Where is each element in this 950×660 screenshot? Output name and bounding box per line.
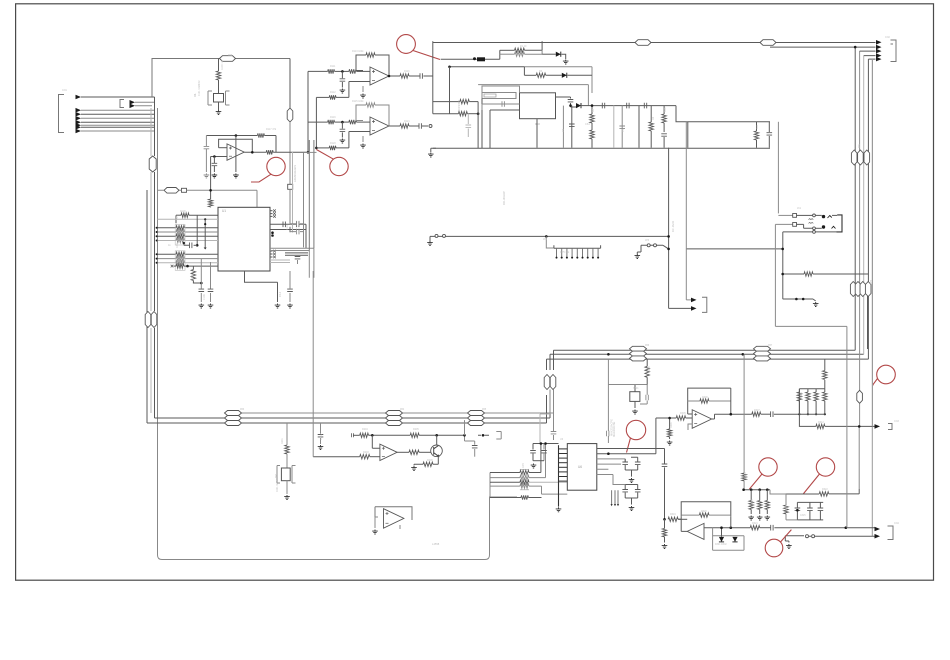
input resistor stack B: [158, 253, 177, 255]
terminal cluster right: [482, 434, 485, 437]
feedback resistor R28b: [410, 433, 419, 437]
svg-text:FB7: FB7: [768, 345, 773, 347]
svg-text:C315: C315: [800, 515, 806, 517]
annotation circle A8: [765, 539, 783, 557]
cap C15: [553, 411, 555, 431]
Q1 emitter down resistor: [433, 456, 438, 464]
svg-text:R116: R116: [404, 70, 410, 73]
connector P1 bracket: [891, 40, 897, 62]
U4 input resistor R27: [360, 455, 370, 459]
crystal X2 block: [286, 423, 288, 445]
op-amp U3B: [370, 117, 389, 135]
ground left end: [427, 241, 433, 246]
U3A ground: [362, 86, 364, 92]
junction dots upper bus: [607, 353, 610, 356]
wire y494 to cluster2: [770, 490, 785, 494]
left vertical bus: [146, 190, 148, 423]
resistor R29: [490, 497, 521, 499]
output bar: [285, 253, 308, 255]
svg-text:MAX202CSE: MAX202CSE: [612, 421, 616, 437]
lower wire y299: [783, 298, 813, 300]
wire x872 from top: [872, 60, 874, 426]
U5 plus ground: [688, 424, 692, 430]
annotation circle A4: [626, 420, 645, 439]
grounds under power: [431, 148, 436, 152]
svg-text:R119: R119: [330, 116, 336, 119]
vertical drop x859: [858, 426, 860, 489]
connector J1 bracket: [59, 95, 65, 133]
svg-text:RP1: RP1: [176, 215, 179, 220]
vertical bead pair on riser: [544, 375, 550, 390]
diode pair: [713, 528, 744, 551]
resistor R33 above bank: [824, 380, 826, 389]
resistor R35 vertical: [742, 473, 746, 481]
cap C10 column: [200, 259, 202, 289]
resistor R32: [752, 412, 761, 416]
svg-text:R106: R106: [180, 210, 186, 213]
svg-text:R115 100k: R115 100k: [352, 100, 364, 103]
resistor R18: [500, 53, 515, 55]
cluster2 vertical resistor R40: [785, 494, 787, 505]
top right connector P1 wires: [770, 46, 876, 48]
svg-text:CN2: CN2: [885, 36, 890, 39]
IC2 box: [567, 444, 597, 491]
upper 3-line bus: [547, 350, 869, 359]
gray cap column x468: [467, 114, 469, 124]
diode D1: [541, 41, 543, 50]
svg-text:TOP249Y: TOP249Y: [457, 100, 461, 112]
svg-text:L4558: L4558: [432, 542, 440, 546]
svg-text:R304: R304: [670, 422, 673, 428]
vertical from bus to row: [464, 420, 466, 435]
vertical column x563: [562, 106, 564, 148]
IC2 left pins: [559, 448, 568, 450]
U7 output wire: [704, 527, 750, 529]
U2 feedback resistor R5: [257, 133, 264, 137]
diode D3: [576, 103, 581, 108]
resistor pack RP3: [546, 236, 554, 248]
bead group G7 right bus: [850, 282, 856, 297]
diode D2: [562, 73, 567, 78]
annotation circle A2: [267, 157, 285, 175]
U3B output terminal: [429, 125, 432, 128]
annotation circle A7: [877, 365, 896, 384]
jack left verticals: [775, 224, 847, 413]
op-amp U6 box: [375, 507, 412, 520]
caps group right of IC2 lower: [622, 490, 628, 492]
op-amp U3A: [370, 67, 389, 85]
svg-text:CN3: CN3: [894, 420, 899, 423]
ferrite bead FB2: [287, 108, 293, 122]
cap C11 column: [210, 262, 212, 289]
svg-text:R113 100k: R113 100k: [352, 50, 364, 53]
svg-text:R302: R302: [648, 366, 651, 372]
U2 feedback wire: [206, 135, 257, 137]
gray row y219: [158, 218, 219, 220]
svg-text:R314: R314: [751, 499, 754, 505]
svg-text:R105: R105: [191, 274, 194, 280]
resistor R7 row1: [308, 70, 328, 72]
bead group G6 right bus: [851, 150, 857, 165]
IC1 right output wires w caps: [270, 223, 296, 225]
cap C14 right of Q1: [465, 435, 475, 445]
caps group right of IC2 upper: [622, 462, 628, 464]
cap C4: [341, 71, 343, 78]
resistor rows left: [433, 101, 460, 103]
svg-text:FB5: FB5: [482, 409, 487, 411]
svg-text:C111: C111: [286, 224, 289, 230]
svg-text:C106: C106: [203, 294, 206, 300]
lower jack wires: [785, 535, 804, 537]
svg-text:R112: R112: [330, 91, 336, 94]
svg-text:R104 1M: R104 1M: [221, 60, 224, 70]
transistor Q1: [431, 445, 443, 457]
svg-text:R318: R318: [785, 504, 788, 510]
resistor R25 vertical: [192, 266, 194, 269]
U2 feedback box: [219, 139, 253, 152]
ferrite bead FB1: [220, 56, 236, 62]
cap C5: [341, 122, 343, 129]
resistor R41 vertical: [664, 519, 666, 528]
resistor R10 row4: [316, 147, 329, 149]
vertical x197 cap link: [196, 215, 198, 245]
svg-text:FB8: FB8: [228, 55, 233, 57]
resistor R23: [176, 214, 181, 216]
wire row y67: [450, 66, 525, 68]
U4 minus wire: [372, 435, 380, 448]
vertical gray feed lines: [288, 184, 293, 189]
svg-text:U6: U6: [578, 465, 582, 469]
svg-text:C12: C12: [278, 291, 282, 297]
IC2 right pin wires: [597, 448, 665, 450]
jack coil marks: [809, 219, 814, 220]
IC1 box: [218, 207, 270, 271]
U5 input resistor R31: [676, 416, 685, 420]
resistor R30 vertical: [669, 418, 671, 429]
caps under bar: [295, 257, 301, 259]
Q1 collector up: [436, 435, 438, 445]
svg-text:R308: R308: [800, 392, 803, 398]
vertical gray x847 lower: [846, 413, 848, 528]
resistor bank RB1: [799, 388, 824, 390]
U6 ground: [375, 516, 378, 518]
inner boundary left and bottom: [158, 108, 518, 560]
IC3 right components: [556, 97, 571, 99]
cap C12: [287, 289, 293, 291]
IC2 top feeds: [607, 385, 609, 432]
resistor R8 row2: [316, 96, 329, 98]
jack switch row1: [778, 214, 792, 216]
ferrite bead FB4 pair on left bus: [145, 312, 151, 328]
cap pair mid: [297, 221, 299, 227]
svg-text:R203: R203: [363, 451, 369, 454]
resistor stack RP4: [490, 472, 520, 474]
vertical column x651 resistor: [650, 106, 652, 122]
svg-text:R306: R306: [702, 396, 708, 399]
U4 feedback resistor R26: [353, 434, 359, 436]
U3B feedback resistor R14: [356, 105, 366, 121]
mid horizontal bus 3 lines: [147, 418, 550, 423]
svg-text:R204: R204: [362, 428, 368, 431]
input resistor stack A: [158, 227, 177, 229]
svg-text:R322: R322: [822, 488, 828, 491]
vertical link B: [315, 97, 317, 147]
IC3 left bracket caps: [482, 93, 516, 99]
vertical column x664 resistor cap: [663, 106, 665, 114]
vertical column x622 cap: [621, 106, 623, 148]
resistor R34: [816, 424, 825, 428]
crystal Y1: [214, 94, 224, 103]
output pins P3: [875, 527, 881, 532]
U3B output resistor R16: [389, 125, 400, 127]
svg-text:C64: C64: [585, 122, 590, 126]
svg-text:X301: X301: [633, 387, 639, 390]
power box inner top wire: [478, 85, 588, 106]
inner boundary top wire: [152, 59, 290, 98]
terminal block right of pack: [647, 244, 650, 247]
svg-text:R201: R201: [281, 438, 284, 444]
annotation circle A1: [397, 35, 416, 54]
op-amp U4: [380, 444, 397, 460]
power step right: [676, 106, 688, 148]
resistor R24 bottom row: [171, 265, 174, 268]
cluster2 cap box: [797, 502, 823, 520]
op-amp U5: [692, 410, 711, 429]
wires J1 to bus: [81, 96, 155, 98]
feed lines from bead riser: [550, 390, 554, 415]
svg-text:R320: R320: [701, 510, 707, 513]
svg-text:RD-30HAP: RD-30HAP: [502, 191, 506, 205]
vertical x664 through cap to U7: [664, 449, 666, 464]
cluster1 resistors: [750, 490, 752, 501]
U7 output resistor R43: [750, 526, 760, 530]
vertical link A: [307, 71, 309, 152]
cap C19: [771, 411, 773, 417]
svg-text:FB4: FB4: [400, 409, 405, 411]
svg-text:R206: R206: [427, 459, 433, 462]
resistor R1: [218, 59, 220, 72]
annotation circle A3: [330, 157, 348, 175]
vertical through bus: [312, 413, 314, 457]
U2 plus cap C3: [213, 157, 215, 164]
U2 plus feed vertical: [210, 157, 212, 191]
connector J2 pins: [130, 100, 136, 105]
svg-text:R205: R205: [413, 428, 419, 431]
power rail top y105.6: [592, 105, 676, 107]
U4 output resistor R28: [396, 451, 409, 453]
U2 output resistor R6: [244, 151, 266, 153]
svg-text:DC JACK: DC JACK: [671, 221, 675, 232]
fuse row: [441, 58, 477, 60]
inner boundary riser to rows: [489, 473, 491, 498]
IC3 regulator: [520, 93, 556, 119]
wire to step: [524, 67, 592, 93]
svg-text:RP5 10k: RP5 10k: [560, 251, 570, 254]
U2 plus wire: [211, 156, 227, 158]
vertical column x639: [638, 106, 640, 148]
output pin P2: [875, 424, 881, 429]
svg-text:JK1: JK1: [797, 207, 802, 210]
rail caps: [602, 103, 604, 109]
U3B ground: [362, 136, 364, 142]
svg-text:RP3: RP3: [522, 463, 525, 468]
U2 gray input cap C2: [205, 136, 207, 147]
U3A feedback resistor R11: [356, 55, 366, 71]
connector P1 pins: [876, 40, 882, 45]
vertical column x613: [613, 106, 615, 148]
svg-text:R117 47k: R117 47k: [266, 128, 277, 131]
cap C22: [771, 525, 773, 531]
top bus wire: [433, 42, 876, 44]
connector P4 bracket: [702, 297, 707, 312]
IC1 bottom mid wire: [245, 271, 278, 302]
caps C17 C18: [533, 443, 559, 445]
ferrite bead FB3 on left bus: [149, 156, 156, 172]
resistor R19: [523, 67, 525, 76]
connector J2 bracket: [120, 100, 124, 108]
resistor R21 row274: [783, 273, 804, 275]
cap C16: [646, 385, 648, 395]
power rail bottom y147.7: [433, 147, 770, 149]
bead FB6 top bus: [760, 40, 776, 46]
vertical x205 with dots: [204, 219, 206, 247]
svg-text:X201 32.768k: X201 32.768k: [276, 476, 279, 492]
cluster2 resistor R39: [785, 493, 819, 495]
cap C9 on step: [768, 122, 770, 132]
RP4 right links: [529, 444, 541, 473]
cluster1 top wire: [744, 489, 770, 491]
U7 input resistor R42: [668, 517, 678, 521]
svg-text:R307: R307: [754, 409, 760, 412]
op-amp U7 pointing left: [687, 523, 704, 539]
svg-text:JP3: JP3: [645, 239, 650, 242]
IC2 bottom pins: [612, 490, 618, 504]
svg-text:CN4: CN4: [894, 522, 899, 525]
bus corner rise to upper bus: [547, 395, 554, 423]
bead group G1 on mid bus: [225, 411, 242, 416]
svg-text:ADM202EARN: ADM202EARN: [293, 165, 297, 182]
svg-text:FB2: FB2: [871, 279, 873, 284]
svg-text:R305: R305: [680, 412, 686, 415]
bead FB5 top bus: [635, 40, 651, 46]
jack switch row2: [775, 223, 792, 225]
annotation circle A5: [759, 458, 777, 476]
vertical gray x744: [743, 354, 745, 473]
jack switch row3: [783, 231, 813, 233]
resistor R22: [210, 190, 212, 199]
vertical feeds x303 x309 x313: [303, 152, 305, 247]
IC1 right pin dots: [271, 231, 274, 234]
svg-text:FB3: FB3: [240, 409, 245, 411]
IC1 lower right outputs: [270, 248, 314, 250]
svg-text:C201: C201: [320, 434, 323, 440]
svg-text:CN1: CN1: [62, 89, 67, 92]
resistor R20 on step: [688, 121, 745, 123]
U3A output resistor R13: [389, 75, 400, 77]
resistor R9b: [349, 120, 357, 124]
long vertical wire x872: [871, 60, 873, 536]
svg-text:RP2: RP2: [176, 243, 179, 248]
op-amp U2: [227, 144, 244, 160]
resistor R9 row3: [308, 121, 328, 123]
single bead G8 right bus: [857, 390, 863, 403]
svg-text:JP2: JP2: [543, 238, 548, 241]
connector P4 wires: [669, 249, 691, 309]
resistor R17: [500, 49, 515, 51]
wires right column lower: [867, 296, 869, 349]
svg-text:R313: R313: [744, 472, 747, 478]
U7 feedback loop: [681, 502, 731, 517]
bead group G4 upper bus: [630, 346, 647, 351]
U2 minus wire: [219, 147, 227, 149]
vertical column x592 resistors: [591, 106, 593, 114]
svg-text:U1: U1: [222, 209, 226, 213]
cap C13: [320, 423, 322, 434]
svg-text:R11: R11: [756, 124, 759, 129]
svg-text:FB6: FB6: [645, 345, 650, 347]
bead group G2 on mid bus: [386, 411, 403, 416]
IC3 left wires: [490, 110, 520, 148]
power section outline: [432, 41, 434, 114]
svg-text:R319: R319: [670, 513, 676, 516]
U5 output: [712, 414, 752, 419]
svg-text:R120: R120: [330, 142, 336, 145]
bead FB7: [164, 188, 179, 194]
svg-text:R10: R10: [664, 107, 667, 112]
svg-text:FB1: FB1: [859, 143, 861, 148]
connector J1 pins: [76, 95, 82, 100]
IC2 left common vertical: [558, 445, 560, 506]
vertical column x571 cap: [571, 106, 573, 148]
U2 cross vertical: [235, 136, 237, 173]
wire down from top-right of inner boundary: [289, 59, 291, 109]
resistor R7b: [349, 69, 357, 73]
U5 input feed from IC2: [656, 418, 676, 454]
svg-text:R312: R312: [818, 421, 824, 424]
bead group G5 upper bus: [754, 346, 771, 351]
open terminals: [435, 234, 438, 237]
wires J2: [135, 101, 155, 103]
X3 resistor link: [608, 384, 647, 386]
jack frame bracket: [837, 215, 843, 232]
svg-text:R1 10: R1 10: [520, 45, 527, 48]
crystal X3: [607, 359, 609, 385]
wire FB2 down: [289, 122, 291, 184]
svg-text:D301 D302: D301 D302: [715, 544, 727, 546]
U5 feedback loop: [688, 388, 731, 414]
svg-text:R121: R121: [404, 120, 410, 123]
bead group G3 on mid bus: [468, 411, 485, 416]
power verticals to lower area: [668, 148, 670, 249]
svg-text:R111: R111: [330, 65, 336, 68]
annotation circle A6: [816, 458, 834, 476]
vertical feed x313 lower: [312, 271, 314, 413]
right vertical 4-line bus: [854, 47, 856, 350]
svg-text:X101 3.6864M: X101 3.6864M: [198, 80, 201, 96]
ground for Y1: [218, 102, 220, 110]
wire to output pin y426: [799, 414, 816, 426]
svg-text:X1: X1: [193, 93, 197, 97]
connector P4 pins: [691, 298, 697, 303]
IC3 ground: [536, 119, 538, 148]
svg-text:R321: R321: [752, 522, 758, 525]
IC1 right no-connect pins: [270, 210, 273, 212]
